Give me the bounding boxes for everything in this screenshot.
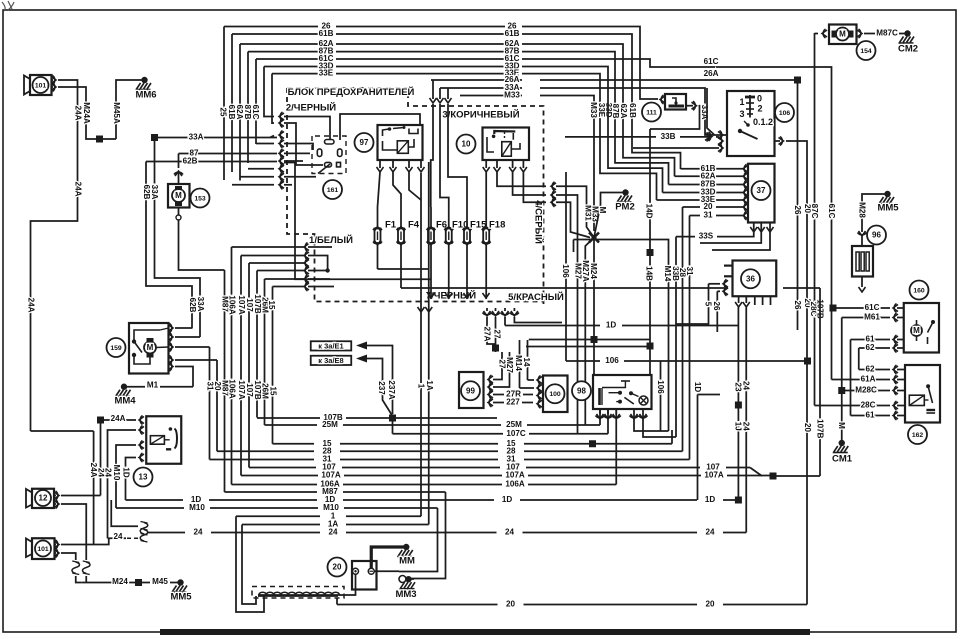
svg-text:24: 24 <box>113 532 123 541</box>
svg-text:33E: 33E <box>319 69 334 78</box>
wire 61C row to 160 <box>832 307 891 309</box>
wire stub right of pins <box>514 317 562 323</box>
svg-text:62B: 62B <box>142 185 151 200</box>
fuse block dashed outline <box>287 88 544 304</box>
wire 107A bus <box>241 475 318 477</box>
wire 15 vertical <box>272 287 274 444</box>
component 36 box <box>733 261 777 297</box>
terminal right 20 <box>368 568 374 574</box>
wire 106A vertical <box>231 247 233 485</box>
arrow F18 out <box>483 293 490 298</box>
wire 26 vertical right <box>797 80 799 325</box>
svg-text:M: M <box>839 30 846 39</box>
svg-text:161: 161 <box>327 187 339 194</box>
wire 33B to switch <box>716 136 719 138</box>
heater coil thick <box>258 594 338 597</box>
wire row 339 <box>529 339 650 341</box>
svg-text:M27: M27 <box>505 357 514 373</box>
component 159 pin2 <box>168 334 173 341</box>
wire pin4 to terminal <box>284 144 313 151</box>
component 99 box <box>459 372 484 408</box>
junction M24/M45 <box>135 579 142 586</box>
wire 26 top row <box>224 26 318 28</box>
circle 99 <box>461 381 480 400</box>
wire 26A row <box>431 79 522 81</box>
ground MM4 <box>121 384 127 390</box>
circle 161 <box>323 180 342 199</box>
wire 62A to 37 <box>675 175 701 177</box>
svg-text:2: 2 <box>757 103 762 113</box>
component 36 left pin4 <box>723 288 728 295</box>
svg-text:24: 24 <box>741 381 750 391</box>
svg-text:20: 20 <box>506 600 516 609</box>
wire 159 inner 2 <box>134 355 150 364</box>
svg-text:25M: 25M <box>322 420 338 429</box>
wire 62A top row <box>240 43 318 45</box>
svg-text:PM2: PM2 <box>615 202 635 213</box>
wire 24A horiz join <box>31 430 94 432</box>
svg-text:159: 159 <box>110 345 122 352</box>
connector 2/black pin2 <box>279 120 284 127</box>
svg-text:MM4: MM4 <box>114 396 136 407</box>
wire 1D top row <box>505 325 600 327</box>
fuse F15 feed <box>447 88 449 99</box>
component 36 left pin1 <box>724 265 733 267</box>
svg-text:1/БЕЛЫЙ: 1/БЕЛЫЙ <box>309 234 353 246</box>
svg-text:1D: 1D <box>121 467 130 478</box>
circle 10 <box>457 135 476 154</box>
svg-text:M14: M14 <box>663 266 672 282</box>
connector pins from fuse block bottom <box>486 308 488 311</box>
svg-text:24: 24 <box>505 528 515 537</box>
wire M28C row <box>842 390 890 392</box>
wire pin8 blade <box>284 176 316 178</box>
svg-text:MM6: MM6 <box>135 90 156 101</box>
svg-text:F1: F1 <box>385 220 397 231</box>
wire 107C end <box>607 410 609 434</box>
component 96 entry arrow <box>859 231 866 236</box>
fuse F18 <box>485 207 487 229</box>
component 162 contact <box>926 384 930 388</box>
svg-text:153: 153 <box>194 195 206 202</box>
svg-text:33S: 33S <box>699 232 714 241</box>
wire 1 vertical <box>420 173 422 516</box>
component 37 bottom pin2 <box>700 223 761 244</box>
svg-text:1D: 1D <box>693 382 702 393</box>
svg-text:14B: 14B <box>644 266 653 281</box>
wire 62 bracket vertical <box>858 348 860 370</box>
wire X left tail <box>573 240 575 253</box>
svg-text:M10: M10 <box>189 503 205 512</box>
component 37 bottom pin3 <box>712 223 770 251</box>
corner scribble <box>2 1 14 11</box>
ground MM6 <box>141 77 147 83</box>
wire motor 153 top stub <box>178 154 180 169</box>
arrow F15 out <box>464 293 471 298</box>
circle 154 <box>857 41 876 60</box>
svg-text:M24A: M24A <box>82 102 91 124</box>
wire 33B vertical <box>675 237 677 437</box>
svg-text:61B: 61B <box>319 29 334 38</box>
wire 31 vertical <box>689 216 691 460</box>
switch in 160 <box>931 320 935 324</box>
svg-text:106A: 106A <box>227 379 236 399</box>
wire 87B to pin7 <box>248 168 274 170</box>
svg-text:62: 62 <box>865 365 875 374</box>
svg-text:M: M <box>837 422 846 429</box>
circle 160 <box>910 281 929 300</box>
wire 36 stub 5 <box>676 284 709 324</box>
connector 1/white pin5 <box>304 276 309 283</box>
svg-text:24: 24 <box>328 528 338 537</box>
component 100 pins <box>537 377 542 384</box>
wire 107A vertical <box>240 256 242 476</box>
svg-text:87C: 87C <box>810 204 819 219</box>
wire 1D vertical mid <box>697 395 699 501</box>
junction 107/107A <box>770 473 777 480</box>
wire 33D to 37 <box>663 192 701 194</box>
svg-text:33B: 33B <box>661 132 676 141</box>
motor 154 right pin <box>857 30 862 37</box>
thick wire 20 to MM <box>371 547 405 568</box>
wire 87C vertical <box>814 33 816 406</box>
wire white pin4 stub <box>308 270 328 272</box>
wire 33B row <box>565 136 656 138</box>
wire white pin6 stub <box>308 286 334 288</box>
connector 2/black pin9 <box>279 181 284 188</box>
wire 24A vert (x93) <box>93 431 95 545</box>
component 162 pin 61A <box>893 376 898 383</box>
svg-text:CM1: CM1 <box>832 454 853 465</box>
ignition switch 106 box <box>727 91 775 156</box>
circle 98 <box>572 381 591 400</box>
wire 27 short vert <box>495 317 497 352</box>
wire 61C to pin4 <box>256 143 274 145</box>
ground CM2 <box>904 30 910 36</box>
svg-text:111: 111 <box>646 109 657 116</box>
fuse F10 <box>448 207 450 229</box>
svg-text:26: 26 <box>793 205 802 215</box>
svg-text:31: 31 <box>685 266 694 276</box>
wire 33E drop <box>271 74 273 124</box>
svg-text:107B: 107B <box>815 419 824 439</box>
wire 28 vertical <box>682 207 684 451</box>
wire M87 bus <box>225 491 318 493</box>
svg-text:62B: 62B <box>183 157 198 166</box>
fuse F4 <box>400 207 402 229</box>
motor 159 symbol <box>144 342 156 354</box>
wire 33A vertical <box>155 138 201 338</box>
component 36 bottom pins <box>738 296 740 303</box>
svg-text:15: 15 <box>268 386 277 396</box>
junction 23v <box>735 402 742 409</box>
wire 107 jog <box>750 468 762 477</box>
svg-text:M45: M45 <box>152 577 168 586</box>
svg-text:M1: M1 <box>147 381 159 390</box>
junction M24/row339 <box>591 336 598 343</box>
wire 62A right run <box>522 44 675 176</box>
ground MM5 (bottom left) <box>177 579 183 585</box>
component 162 pin 62 <box>893 366 898 373</box>
component 111 right wire <box>686 105 693 107</box>
wire pin9 run <box>284 184 292 186</box>
wire M1 <box>127 386 145 388</box>
svg-text:107: 107 <box>245 298 254 312</box>
svg-text:4/СЕРЫЙ: 4/СЕРЫЙ <box>532 200 544 244</box>
wire 12 pin2 <box>61 504 86 560</box>
svg-text:61C: 61C <box>704 57 719 66</box>
wire 100 pin1 <box>528 379 535 381</box>
wire 28C row <box>815 405 891 407</box>
lamp box <box>593 375 652 409</box>
wire M45 row <box>141 582 150 584</box>
svg-text:61C: 61C <box>251 105 260 120</box>
svg-text:101: 101 <box>35 82 47 89</box>
svg-text:31: 31 <box>703 211 713 220</box>
component 162 pin M28C <box>893 387 898 394</box>
svg-text:1D: 1D <box>606 321 617 330</box>
svg-text:24: 24 <box>193 528 203 537</box>
connector 1/white pin3 <box>304 260 309 267</box>
wire white pin2 bracket <box>308 256 328 271</box>
wire 33D top row <box>264 66 318 68</box>
svg-text:20: 20 <box>333 563 342 572</box>
component 160 pin 61 <box>893 336 898 343</box>
svg-text:106: 106 <box>656 380 665 394</box>
component 111 box <box>665 94 686 110</box>
junction M24A/M45A <box>96 136 103 143</box>
wire 106 vertical right <box>660 361 662 431</box>
junction 15 bus <box>589 440 596 447</box>
wire M45A <box>116 80 143 139</box>
component 12 horn box <box>32 489 54 508</box>
component 101b horn box <box>32 538 55 559</box>
component 100 box <box>543 376 568 413</box>
svg-text:99: 99 <box>466 386 475 395</box>
svg-text:5: 5 <box>703 302 712 307</box>
lamp symbol <box>639 396 648 405</box>
circle 162 <box>908 425 927 444</box>
wire 1A down <box>242 525 256 605</box>
svg-text:2/ЧЕРНЫЙ: 2/ЧЕРНЫЙ <box>286 102 336 114</box>
wire white pin1 stub <box>308 246 332 248</box>
svg-text:61B: 61B <box>505 29 520 38</box>
wire 107 vertical <box>248 263 250 468</box>
wire 100 pin2 <box>520 387 535 389</box>
switch 159 <box>132 339 136 343</box>
arrow 37 pin b1 <box>750 227 757 232</box>
wire 161-bottom to fuse area <box>284 163 431 280</box>
wire to M24 a <box>76 576 82 583</box>
relay 97 bottom pins <box>379 160 381 168</box>
wire M28 <box>862 194 886 232</box>
wire 61 bracket vertical <box>850 340 852 416</box>
wire 99 pin2 <box>493 352 510 387</box>
svg-text:БЛОК ПРЕДОХРАНИТЕЛЕЙ: БЛОК ПРЕДОХРАНИТЕЛЕЙ <box>288 86 415 98</box>
motor 153 symbol <box>172 189 185 202</box>
wire 26 vert end <box>797 325 799 330</box>
component 160 box <box>904 303 939 353</box>
wire 61B right run <box>522 34 681 169</box>
wire lamp pin4 <box>634 414 669 431</box>
svg-text:M28C: M28C <box>855 386 877 395</box>
wire 1A bus <box>242 524 320 526</box>
svg-text:26: 26 <box>712 301 721 311</box>
wire 62B row <box>146 161 277 163</box>
svg-text:3: 3 <box>739 109 744 119</box>
svg-text:12: 12 <box>39 494 48 503</box>
wire coil right to 20 <box>338 574 356 595</box>
svg-text:14D: 14D <box>644 204 653 219</box>
svg-text:37: 37 <box>757 186 766 195</box>
svg-text:M14: M14 <box>514 355 523 371</box>
component 36 left pin3 <box>723 280 728 287</box>
component 111 left pin <box>660 96 665 103</box>
wire white pin5 stub <box>308 278 330 280</box>
lamp box pins <box>599 409 601 414</box>
wire 28-row vertical (from 159 pin4) <box>216 360 218 451</box>
svg-text:MM3: MM3 <box>395 589 416 600</box>
svg-text:24A: 24A <box>73 106 82 121</box>
wire 25 vertical (from 26 corner) <box>223 27 225 181</box>
fuse F6 feed <box>432 80 434 99</box>
wire 1 bus <box>236 515 320 517</box>
svg-text:M61: M61 <box>864 313 880 322</box>
svg-text:M24: M24 <box>112 577 128 586</box>
wire 1D row top pin <box>504 317 506 326</box>
X junction <box>589 233 599 243</box>
svg-text:98: 98 <box>577 386 586 395</box>
connector 2/black pin4 <box>279 140 284 147</box>
svg-text:M27A: M27A <box>581 260 590 282</box>
wire M10 down <box>399 508 438 572</box>
component 101b pins <box>54 541 59 548</box>
wire 106A bus <box>232 484 318 486</box>
wire 62 row (160) <box>859 347 890 349</box>
svg-text:F4: F4 <box>408 220 420 231</box>
svg-text:M87C: M87C <box>876 29 898 38</box>
wire to M24 b <box>85 576 87 583</box>
wire M10 bus <box>116 507 184 509</box>
component 101 horn (top-left) <box>30 75 52 95</box>
svg-text:33A: 33A <box>189 133 204 142</box>
svg-text:5/КРАСНЫЙ: 5/КРАСНЫЙ <box>508 291 564 303</box>
wire motor 153 bottom <box>178 208 180 216</box>
svg-text:24A: 24A <box>26 298 35 313</box>
svg-text:24A: 24A <box>73 182 82 197</box>
wire 106 vertical mid <box>565 172 567 361</box>
terminal capsule 1 <box>325 140 335 145</box>
wire 61 row (162) <box>851 415 891 417</box>
wire 15 bus <box>273 443 315 445</box>
switch 106 input pins <box>718 132 723 139</box>
svg-text:160: 160 <box>913 287 925 294</box>
wire 87 row <box>179 153 278 155</box>
wire 33A row (y137) <box>155 137 278 139</box>
wire 99 pin1 <box>493 352 502 380</box>
motor 154 left pin <box>822 30 827 37</box>
component 96 element <box>856 252 859 271</box>
component 160 pin M61 <box>893 314 898 321</box>
motor 154 symbol <box>836 28 849 41</box>
svg-text:33A: 33A <box>196 297 205 312</box>
wire 33E to pin2 <box>272 122 274 124</box>
connector 2/black pin6 <box>279 158 284 165</box>
svg-text:M24: M24 <box>589 263 598 279</box>
svg-text:101: 101 <box>37 546 49 553</box>
svg-text:107: 107 <box>245 383 254 397</box>
wire 107B bus <box>257 417 320 419</box>
wire 227 row <box>493 402 504 404</box>
svg-text:25M: 25M <box>506 420 522 429</box>
svg-text:106A: 106A <box>505 480 525 489</box>
wire 26 right run <box>522 27 658 100</box>
svg-text:97: 97 <box>360 138 369 147</box>
wire 36 stub 26 <box>716 291 718 332</box>
svg-text:0.1.2: 0.1.2 <box>753 117 773 127</box>
svg-text:M: M <box>598 207 607 214</box>
fuse F1 <box>377 207 379 229</box>
svg-text:106: 106 <box>779 110 791 117</box>
wire 107 bus <box>249 467 316 469</box>
svg-text:96: 96 <box>872 231 881 240</box>
svg-text:61C: 61C <box>865 303 880 312</box>
svg-text:237A: 237A <box>387 380 396 400</box>
svg-text:1J: 1J <box>733 422 742 431</box>
junction 26A end <box>794 77 801 84</box>
svg-text:27: 27 <box>492 329 501 339</box>
wire 31 bus <box>210 459 315 461</box>
svg-text:107A: 107A <box>321 471 341 480</box>
svg-text:25: 25 <box>218 107 227 117</box>
wire M61 row <box>842 317 890 319</box>
svg-text:M10: M10 <box>112 465 121 481</box>
junction 27 <box>492 345 499 352</box>
circle 96 <box>867 226 886 245</box>
component 162 box <box>905 365 940 423</box>
break squiggle b <box>83 562 91 574</box>
wire 87B to 37 <box>669 184 701 186</box>
svg-text:24: 24 <box>705 528 715 537</box>
svg-text:107C: 107C <box>506 429 526 438</box>
wire F1 out to 1A-vertical <box>378 268 429 270</box>
fuse F10 feed <box>439 88 441 99</box>
wire 62B vertical to motor junction <box>146 162 192 329</box>
svg-text:87B: 87B <box>243 105 252 120</box>
wire 33E right run <box>522 74 657 200</box>
svg-text:28C: 28C <box>861 401 876 410</box>
circle 100 <box>546 384 565 403</box>
wire 107C bus <box>393 433 504 435</box>
svg-text:M: M <box>175 191 182 200</box>
component 162 pin 61 <box>893 412 898 419</box>
svg-text:26: 26 <box>793 300 802 310</box>
motor 153 box <box>168 184 190 208</box>
wire 159 inner 1 <box>134 330 160 342</box>
connector 2/black pin7 <box>279 165 284 172</box>
junction 33A <box>151 134 158 141</box>
component 159 pin5 <box>168 363 173 370</box>
svg-text:33A: 33A <box>150 185 159 200</box>
svg-text:13: 13 <box>139 473 148 482</box>
wire 107A cont <box>770 475 820 477</box>
component 96 box <box>852 246 873 277</box>
terminal left 20 <box>353 568 359 574</box>
connector 1/white pin1 <box>304 244 309 251</box>
component 13 box <box>146 416 181 464</box>
wire 87B drop <box>247 52 249 163</box>
svg-text:61B: 61B <box>628 103 637 118</box>
